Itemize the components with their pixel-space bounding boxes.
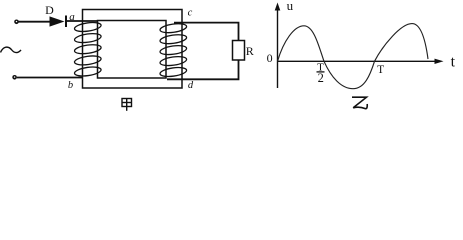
svg-text:t: t [451,54,456,71]
svg-text:R: R [246,44,254,58]
terminal bottom-left [12,75,17,80]
resistor R [233,41,245,61]
wire c to resistor [174,23,239,41]
svg-text:0: 0 [267,51,273,65]
svg-text:a: a [69,11,75,23]
label yi (乙) drawn [352,97,367,108]
wire resistor to d [167,60,239,79]
terminal top-left [14,20,19,25]
secondary coil [159,22,187,78]
svg-text:d: d [188,80,194,91]
primary coil [74,21,102,77]
label jia (甲) drawn [122,99,132,111]
sine curve [278,24,429,89]
svg-text:c: c [188,8,193,19]
AC source tilde [1,47,22,52]
graph: x axis [278,60,437,62]
wire (diode to transformer) [67,20,98,22]
transformer core inner [98,21,167,79]
diode D [50,16,65,26]
svg-text:u: u [287,0,294,13]
svg-text:T: T [377,64,384,76]
svg-text:D: D [45,3,54,17]
transformer core outer [83,10,183,89]
svg-text:2: 2 [318,71,324,85]
wire bottom (terminal to transformer) [17,77,83,79]
svg-text:b: b [68,80,73,91]
graph: y axis [277,8,279,88]
wire top (terminal to diode) [19,21,50,23]
